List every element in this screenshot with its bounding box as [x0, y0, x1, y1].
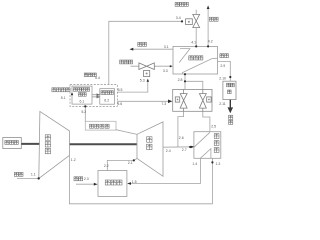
valve 3.4 actuator box: [186, 19, 193, 25]
svg-text:7.3: 7.3: [161, 102, 166, 106]
svg-text:3.1: 3.1: [164, 45, 169, 49]
recuperator box: [194, 132, 221, 159]
controller sub-box 6.1: [72, 86, 92, 104]
arrowhead fuel into combustor: [94, 183, 98, 186]
chiller internal flag: [179, 49, 190, 63]
wire roomtemp water through valve 3.2: [131, 65, 174, 67]
arrowhead exhaust discharge: [228, 107, 234, 113]
node roomtemp water to chiller 3.3: [170, 65, 172, 67]
node chiller top 4.1: [195, 45, 197, 47]
node chiller top 4.2: [207, 45, 209, 47]
wire air inlet: [17, 177, 39, 179]
svg-text:2.9: 2.9: [220, 64, 225, 68]
label exhaust discharge: [229, 115, 233, 119]
turbine trapezoid: [137, 122, 163, 176]
wire control to valve box 5.6: [117, 100, 169, 102]
shaft generator-compressor: [21, 143, 40, 145]
wire control to valve 3.2 actuator 5.3: [117, 81, 148, 92]
label chiller: [189, 56, 193, 60]
svg-text:2.8: 2.8: [178, 78, 183, 82]
wire recuperator cold out to combustor 1.4: [128, 158, 200, 183]
svg-text:2.11: 2.11: [219, 102, 226, 106]
svg-text:5.2: 5.2: [81, 110, 86, 114]
valve 3.2 hourglass: [139, 63, 147, 70]
valve 7.2 actuator box: [207, 97, 211, 102]
label generator: [5, 140, 9, 144]
valve 3.4 hourglass: [193, 14, 200, 21]
label storage row2: [228, 90, 232, 94]
chiller internal diagonal: [182, 58, 217, 74]
wire chiller bottom to valve box 2.8: [185, 74, 203, 89]
node recuperator cold inlet 1.3: [211, 161, 213, 163]
wire control riser to valve 3.4 5.4: [109, 21, 182, 84]
wire fuel inlet: [76, 183, 95, 185]
label turbine: [147, 137, 152, 142]
wire recuperator top to valve 7.2 2.5: [203, 111, 210, 131]
svg-text:5.6: 5.6: [117, 102, 122, 106]
label regulator 6.2: [101, 91, 105, 95]
wire compressor outlet to recuperator 1.2-1.3: [69, 155, 212, 203]
node controller output 5.2: [84, 105, 86, 107]
controller dashed box: [70, 85, 117, 107]
wire combustor outlet to turbine 2.1: [107, 159, 137, 171]
label compressor: [45, 135, 50, 140]
svg-text:2.5: 2.5: [211, 124, 216, 128]
node air inlet at compressor: [38, 177, 40, 179]
svg-text:2.10: 2.10: [219, 77, 226, 81]
wire sensor diagonal to turbine inlet: [116, 130, 137, 135]
recuperator cold-side internal path: [200, 149, 211, 159]
svg-text:5.3: 5.3: [140, 79, 145, 83]
svg-text:2.4: 2.4: [166, 149, 171, 153]
svg-text:2.1: 2.1: [128, 161, 133, 165]
arrowhead control into valve 3.2 actuator: [147, 79, 150, 82]
label exhaust right: [220, 54, 224, 58]
wire sensor gas temperature 5.2: [84, 106, 86, 121]
label controller: [84, 73, 88, 77]
label fuel: [74, 177, 78, 181]
svg-text:4.2: 4.2: [208, 39, 213, 43]
wire bypass valve 7.1 to turbine exhaust 2.6: [178, 111, 184, 147]
svg-text:3.4: 3.4: [176, 16, 181, 20]
valve 7.2 stems: [202, 89, 204, 111]
svg-text:2.7: 2.7: [182, 148, 187, 152]
label roomtemp water top: [175, 2, 179, 6]
label cold water: [209, 17, 213, 21]
arrowhead cold water out: [207, 5, 210, 9]
node valve branch: [184, 80, 186, 82]
wire valve 3.4 stems 4.1: [195, 10, 197, 47]
svg-text:5.1: 5.1: [61, 96, 66, 100]
chiller box: [173, 46, 218, 74]
controller sub-box 6.2: [100, 89, 115, 105]
valve box 7: [173, 89, 212, 111]
valve 7.1 stems: [183, 89, 185, 111]
label gas initial temperature: [90, 124, 94, 128]
label processor row2: [78, 93, 82, 97]
sensor box gas initial temperature: [85, 121, 116, 130]
svg-text:5.5: 5.5: [118, 88, 123, 92]
valve 7.1 hourglass: [180, 94, 187, 101]
svg-text:1.3: 1.3: [216, 162, 221, 166]
controller internal arrows: [92, 94, 99, 98]
label hot water: [138, 42, 142, 46]
wire chiller exhaust to storage 2.9: [218, 61, 231, 81]
arrowhead control into valve box: [168, 100, 172, 104]
label combustor: [105, 180, 110, 185]
label storage row1: [227, 83, 231, 87]
wire hot water out 3.1: [131, 48, 173, 50]
thermal storage box: [223, 81, 236, 99]
recuperator hot-side internal diagonal: [194, 132, 210, 147]
valve 3.2 actuator box: [144, 71, 150, 77]
node valve 3.4 control: [181, 20, 183, 22]
valve 7.2 hourglass: [199, 94, 206, 101]
wire storage outlet stem: [229, 100, 231, 108]
label recuperator: [214, 134, 219, 139]
svg-text:3.3: 3.3: [163, 69, 168, 73]
node chiller bottom 2.8: [184, 73, 186, 75]
wire cold water out 4.2: [207, 8, 209, 47]
shaft compressor-turbine: [69, 143, 137, 145]
node turbine inlet 2.1: [133, 159, 135, 161]
svg-text:1.2: 1.2: [71, 158, 76, 162]
svg-text:4.1: 4.1: [191, 40, 196, 44]
svg-text:2.3: 2.3: [84, 177, 89, 181]
svg-text:1.1: 1.1: [31, 172, 36, 176]
label air: [14, 172, 18, 176]
arrowhead recuperator air into combustor 1.5: [127, 182, 131, 185]
svg-text:1.5: 1.5: [132, 180, 137, 184]
valve 7.1 actuator box: [175, 97, 179, 102]
svg-text:2.6: 2.6: [179, 136, 184, 140]
compressor trapezoid: [39, 111, 70, 178]
label roomtemp water mid: [120, 60, 124, 64]
wire turbine exhaust to recuperator 2.4: [163, 146, 194, 148]
node ambient temp input 5.1: [71, 93, 73, 95]
node turbine exhaust at recuperator 2.7: [189, 146, 191, 148]
svg-text:1.4: 1.4: [192, 162, 197, 166]
label ambient temperature: [52, 88, 56, 92]
svg-text:2.2: 2.2: [104, 164, 109, 168]
node storage inlet 2.10: [229, 76, 231, 78]
arrowhead hot water out: [130, 48, 134, 51]
svg-text:6.2: 6.2: [104, 98, 109, 102]
label processor row1: [73, 88, 77, 92]
arrowhead exhaust into recuperator: [191, 146, 194, 149]
combustor box: [98, 171, 127, 197]
generator box: [3, 138, 22, 149]
svg-text:5.4: 5.4: [95, 76, 100, 80]
svg-text:6.1: 6.1: [80, 100, 85, 104]
